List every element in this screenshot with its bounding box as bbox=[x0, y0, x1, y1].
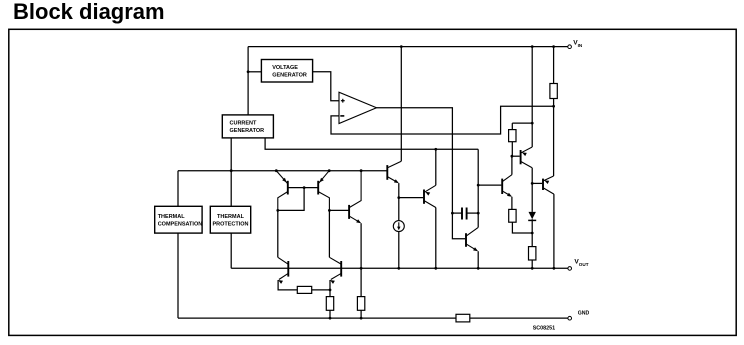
svg-text:GENERATOR: GENERATOR bbox=[230, 128, 265, 134]
svg-text:CURRENT: CURRENT bbox=[230, 121, 258, 127]
svg-text:PROTECTION: PROTECTION bbox=[212, 222, 248, 228]
svg-text:COMPENSATION: COMPENSATION bbox=[158, 222, 203, 228]
svg-text:GENERATOR: GENERATOR bbox=[272, 73, 307, 79]
svg-text:Block diagram: Block diagram bbox=[13, 0, 165, 24]
svg-text:THERMAL: THERMAL bbox=[217, 214, 245, 220]
svg-text:VOLTAGE: VOLTAGE bbox=[272, 65, 298, 71]
svg-text:GND: GND bbox=[578, 310, 590, 316]
svg-text:SC08251: SC08251 bbox=[533, 326, 555, 332]
svg-text:THERMAL: THERMAL bbox=[158, 214, 186, 220]
